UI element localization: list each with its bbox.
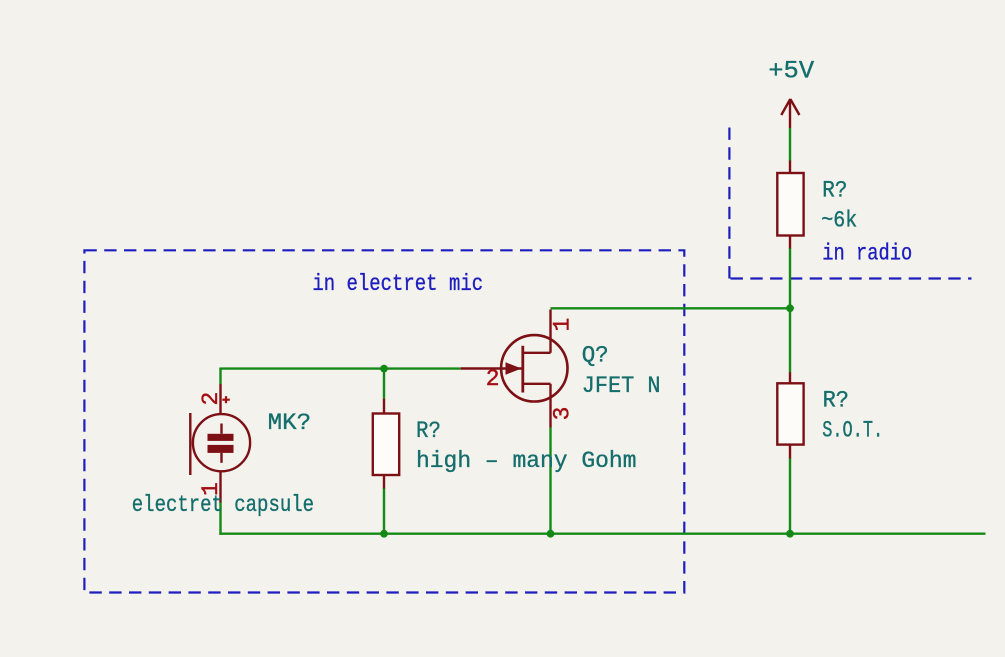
svg-text:Q?: Q? [582,343,609,369]
svg-text:MK?: MK? [268,410,311,436]
svg-text:R?: R? [822,178,847,204]
svg-text:1: 1 [549,318,575,332]
svg-text:2: 2 [486,366,500,392]
svg-text:in radio: in radio [822,241,912,267]
svg-text:high – many Gohm: high – many Gohm [416,448,637,474]
svg-text:R?: R? [416,418,441,444]
svg-text:R?: R? [823,387,849,413]
svg-text:~6k: ~6k [821,207,857,233]
svg-text:+5V: +5V [768,57,814,86]
svg-text:3: 3 [549,407,575,421]
svg-text:in electret mic: in electret mic [312,271,483,297]
svg-text:electret capsule: electret capsule [132,492,314,518]
svg-text:2: 2 [198,392,224,406]
svg-text:JFET N: JFET N [582,373,661,399]
svg-text:S.O.T.: S.O.T. [822,418,883,444]
